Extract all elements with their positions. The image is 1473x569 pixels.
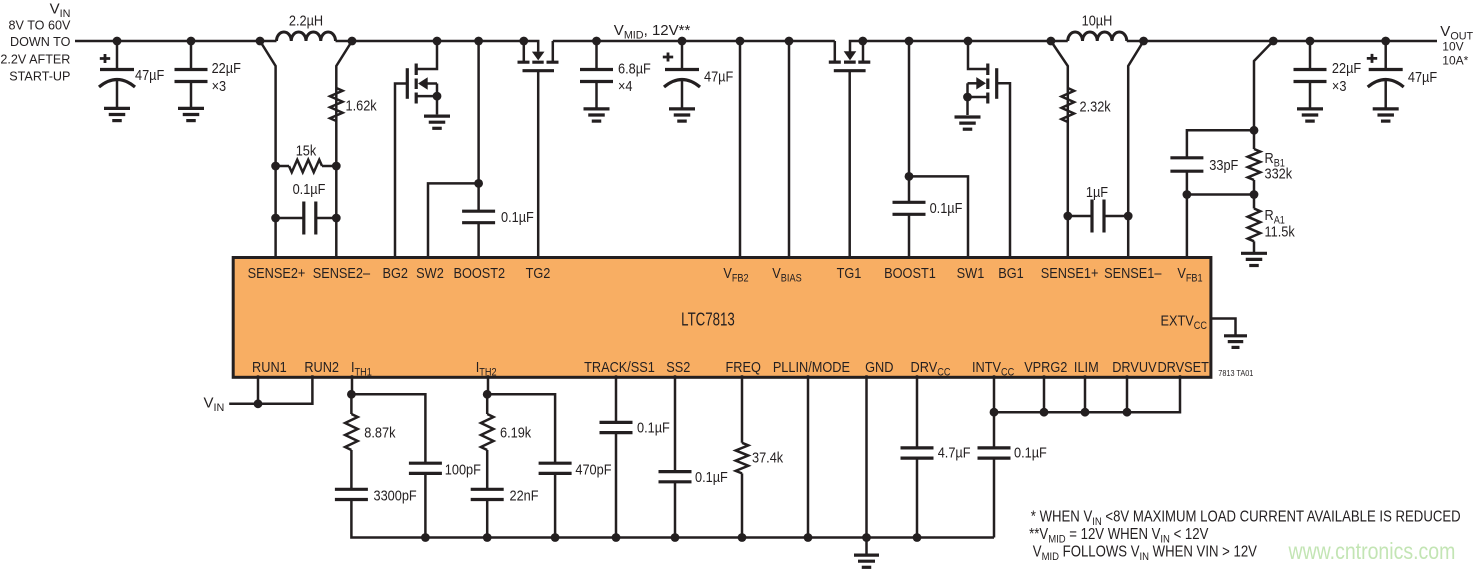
svg-text:BOOST2: BOOST2 xyxy=(453,264,505,281)
capacitor 6.8µF ×4 xyxy=(595,41,598,70)
wire EXTVCC to ground xyxy=(1211,319,1236,335)
capacitor 0.1µF track/ss1 xyxy=(600,421,633,424)
junction dot 470pF at rail xyxy=(551,533,560,542)
junction dot 1µF right xyxy=(1124,212,1133,221)
ground BG1 source xyxy=(955,115,981,118)
svg-text:ILIM: ILIM xyxy=(1074,358,1099,375)
svg-text:DRVSET: DRVSET xyxy=(1157,358,1209,375)
junction dot 1µF left xyxy=(1063,212,1072,221)
wire VOUT rail xyxy=(1144,40,1437,43)
wire SW1 pin elbow xyxy=(909,176,968,259)
junction dot TG2 source at rail xyxy=(519,37,528,46)
wire FREQ pin down xyxy=(741,375,744,443)
junction dot DRVCC at rail xyxy=(913,533,922,542)
resistor RA1 11.5k xyxy=(1248,209,1261,242)
svg-text:0.1µF: 0.1µF xyxy=(293,180,326,197)
wire PLLIN/MODE pin to bottom rail xyxy=(807,375,810,537)
svg-text:TG2: TG2 xyxy=(526,264,551,281)
ground input 22µF xyxy=(178,107,204,110)
junction dot inductor 2.2µH left xyxy=(256,37,265,46)
wire SW2 pin to boost junction xyxy=(428,183,479,259)
junction dot 0.1µF sense2 left xyxy=(271,214,280,223)
transistor M4 bottom NMOS (BG1) xyxy=(986,64,989,104)
junction dot input 22µF xyxy=(187,37,196,46)
wire SW2 switch-node rail xyxy=(352,40,524,43)
junction dot PLLIN at rail xyxy=(804,533,813,542)
capacitor 33pF feedback xyxy=(1170,156,1203,159)
wire SENSE1+ sense line xyxy=(1051,41,1068,260)
svg-text:100pF: 100pF xyxy=(445,460,481,477)
wire ss2 cap to bottom rail xyxy=(674,482,677,538)
junction dot ITH2 xyxy=(483,390,492,399)
svg-text:BOOST1: BOOST1 xyxy=(884,264,936,281)
capacitor 22nF xyxy=(471,488,504,491)
junction dot BOOST1 rail xyxy=(905,37,914,46)
svg-text:SENSE2+: SENSE2+ xyxy=(248,264,306,281)
junction dot 100pF at rail xyxy=(421,533,430,542)
resistor 6.19k xyxy=(481,414,494,450)
capacitor 470pF xyxy=(539,462,572,465)
junction dot output 47µF xyxy=(1381,37,1390,46)
inductor 2.2µH xyxy=(260,40,277,43)
junction dot SW2/BOOST2 xyxy=(474,179,483,188)
capacitor 1µF sense1 filter xyxy=(1068,215,1092,218)
junction dot FREQ at rail xyxy=(738,533,747,542)
resistor 37.4k xyxy=(736,443,749,474)
wire VBIAS pin to VMID rail xyxy=(788,41,791,260)
junction dot VMID 47µF xyxy=(678,37,687,46)
svg-text:22nF: 22nF xyxy=(509,486,538,503)
svg-text:2.2µH: 2.2µH xyxy=(289,11,323,28)
junction dot INTVCC bus xyxy=(990,408,999,417)
wire VFB2 pin to VMID rail xyxy=(739,41,742,260)
wire 37.4k to bottom rail xyxy=(741,473,744,537)
capacitor 0.1µF sense2 filter xyxy=(276,217,304,220)
wire DRVCC pin down xyxy=(916,375,919,448)
svg-text:22µF: 22µF xyxy=(1332,59,1361,76)
svg-text:LTC7813: LTC7813 xyxy=(681,311,735,330)
resistor 2.32k xyxy=(1062,88,1075,122)
svg-text:SENSE2–: SENSE2– xyxy=(313,264,371,281)
ground RA1 xyxy=(1241,252,1267,255)
svg-text:8V TO 60V: 8V TO 60V xyxy=(9,18,71,32)
svg-text:DRVUV: DRVUV xyxy=(1112,358,1157,375)
wire SW1 switch-node rail xyxy=(863,40,1051,43)
wire ITH1 elbow to 100pF xyxy=(351,394,425,463)
svg-text:37.4k: 37.4k xyxy=(752,448,783,465)
wire 8.87k to 3300pF xyxy=(350,450,353,489)
capacitor 47µF input electrolytic xyxy=(116,41,119,70)
svg-text:SENSE1–: SENSE1– xyxy=(1104,264,1162,281)
wire VIN input rail xyxy=(75,40,260,43)
svg-text:DOWN TO: DOWN TO xyxy=(10,35,71,49)
junction dot TG1 source at rail xyxy=(858,37,867,46)
svg-text:VPRG2: VPRG2 xyxy=(1024,358,1067,375)
ground EXTVCC xyxy=(1224,334,1247,337)
wire 6.19k to 22nF xyxy=(486,450,489,489)
junction dot VPRG2 bus xyxy=(1040,408,1049,417)
junction dot BG1 drain at rail xyxy=(964,37,973,46)
svg-text:BG2: BG2 xyxy=(382,264,408,281)
wire RUN1/RUN2 to VIN xyxy=(229,375,312,404)
wire SENSE2+ sense line xyxy=(260,41,276,260)
wire VOUT feedback tap xyxy=(1254,41,1273,149)
svg-text:10µH: 10µH xyxy=(1082,11,1113,28)
svg-text:SS2: SS2 xyxy=(666,358,690,375)
capacitor 0.1µF boost1 xyxy=(893,201,926,204)
junction dot VFB1 at 33pF bottom xyxy=(1183,190,1192,199)
svg-text:1µF: 1µF xyxy=(1086,183,1108,200)
wire BOOST2 vertical from rail xyxy=(477,41,480,211)
svg-text:33pF: 33pF xyxy=(1209,156,1238,173)
junction dot ITH2 at rail xyxy=(483,533,492,542)
svg-text:BG1: BG1 xyxy=(998,264,1024,281)
svg-text:FREQ: FREQ xyxy=(726,358,762,375)
resistor 8.87k xyxy=(345,414,358,450)
junction dot BG2 source/body xyxy=(433,92,442,101)
junction dot RB1/RA1 xyxy=(1250,190,1259,199)
wire ITH2 elbow to 470pF xyxy=(487,394,555,463)
junction dot GND at rail xyxy=(862,533,871,542)
wire 3300pF to bottom rail xyxy=(351,500,994,538)
svg-text:6.19k: 6.19k xyxy=(500,423,531,440)
svg-text:TG1: TG1 xyxy=(837,264,862,281)
wire SENSE1- sense line xyxy=(1128,41,1143,260)
svg-text:START-UP: START-UP xyxy=(9,70,70,84)
svg-text:3300pF: 3300pF xyxy=(373,486,416,503)
capacitor 47µF VMID electrolytic xyxy=(681,41,684,70)
svg-text:PLLIN/MODE: PLLIN/MODE xyxy=(773,358,850,375)
ground 6.8µF xyxy=(584,107,610,110)
junction dot BOOST2 rail xyxy=(474,37,483,46)
svg-text:47µF: 47µF xyxy=(1408,68,1437,85)
junction dot VBIAS xyxy=(785,37,794,46)
svg-text:0.1µF: 0.1µF xyxy=(1014,443,1047,460)
junction dot BOOST1/SW1 xyxy=(905,172,914,181)
svg-text:6.8µF: 6.8µF xyxy=(618,59,651,76)
wire 22nF to bottom rail xyxy=(486,500,489,538)
wire drvcc cap to bottom rail xyxy=(916,458,919,537)
junction dot 15k left xyxy=(271,162,280,171)
svg-text:470pF: 470pF xyxy=(575,460,611,477)
junction dot 15k right xyxy=(332,162,341,171)
transistor M2 bottom NMOS (BG2) xyxy=(415,64,418,104)
ground BG2 source xyxy=(424,114,450,117)
resistor RB1 332k xyxy=(1248,149,1261,180)
svg-text:47µF: 47µF xyxy=(135,66,164,83)
wire BOOST1 vertical from rail xyxy=(908,41,911,202)
svg-text:SW2: SW2 xyxy=(416,264,444,281)
wire VMID rail xyxy=(553,40,835,43)
svg-text:11.5k: 11.5k xyxy=(1265,222,1295,239)
wire INTVCC bus to DRVSET xyxy=(994,375,1180,412)
wire INTVCC pin down xyxy=(993,375,996,448)
svg-text:1.62k: 1.62k xyxy=(345,96,376,113)
wire ITH1 pin down xyxy=(350,375,353,414)
capacitor 0.1µF intvcc xyxy=(978,446,1011,449)
svg-text:7813 TA01: 7813 TA01 xyxy=(1218,368,1254,378)
junction dot output 22µF xyxy=(1306,37,1315,46)
svg-text:10V: 10V xyxy=(1442,39,1463,53)
capacitor 22µF ×3 output xyxy=(1309,41,1312,70)
capacitor 3300pF xyxy=(335,488,368,491)
svg-text:22µF: 22µF xyxy=(212,59,241,76)
junction dot SS2 at rail xyxy=(671,533,680,542)
junction dot inductor 2.2µH right xyxy=(348,37,357,46)
capacitor 100pF xyxy=(409,462,442,465)
svg-text:SENSE1+: SENSE1+ xyxy=(1041,264,1099,281)
wire 470pF to bottom rail xyxy=(554,473,557,537)
wire DRVUV pin to bus xyxy=(1126,375,1129,412)
ground GND pin xyxy=(854,553,879,556)
svg-text:RUN2: RUN2 xyxy=(304,358,339,375)
svg-text:47µF: 47µF xyxy=(704,67,733,84)
wire ILIM pin to bus xyxy=(1084,375,1087,412)
svg-text:2.32k: 2.32k xyxy=(1080,97,1111,114)
wire SENSE2- sense line xyxy=(336,41,352,260)
wire track cap to bottom rail xyxy=(615,433,618,538)
svg-text:4.7µF: 4.7µF xyxy=(938,443,971,460)
wire SS2 pin down xyxy=(674,375,677,471)
wire RA1 to ground xyxy=(1253,241,1256,252)
wire TG2 gate to pin xyxy=(537,71,540,260)
wire BG1 gate to pin xyxy=(997,83,1010,259)
junction dot 6.8µF xyxy=(592,37,601,46)
junction dot inductor 10µH right xyxy=(1139,37,1148,46)
junction dot RB1 top xyxy=(1250,126,1259,135)
ground input 47µF xyxy=(104,107,130,110)
junction dot VFB2 xyxy=(736,37,745,46)
junction dot input 47µF xyxy=(113,37,122,46)
wire BG2 gate to pin xyxy=(395,84,407,260)
svg-text:×3: ×3 xyxy=(212,77,227,94)
resistor 15k xyxy=(276,165,289,168)
svg-text:RUN1: RUN1 xyxy=(252,358,287,375)
svg-text:SW1: SW1 xyxy=(957,264,985,281)
wire RB1 top to VFB1 line xyxy=(1187,130,1254,158)
wire intvcc cap to bottom rail xyxy=(993,458,996,537)
svg-text:×3: ×3 xyxy=(1332,77,1347,94)
svg-text:15k: 15k xyxy=(296,141,317,158)
svg-text:0.1µF: 0.1µF xyxy=(930,199,963,216)
svg-text:GND: GND xyxy=(865,358,893,375)
wire 100pF to bottom rail xyxy=(424,473,427,537)
svg-text:10A*: 10A* xyxy=(1442,54,1468,68)
inductor 10µH xyxy=(1051,40,1068,43)
transistor M3 top NMOS (TG1) xyxy=(829,60,871,63)
svg-text:332k: 332k xyxy=(1265,164,1293,181)
svg-text:8.87k: 8.87k xyxy=(364,423,395,440)
junction dot ITH1 xyxy=(347,390,356,399)
junction dot ILIM bus xyxy=(1081,408,1090,417)
svg-text:www.cntronics.com: www.cntronics.com xyxy=(1288,538,1456,564)
capacitor 0.1µF ss2 xyxy=(659,470,692,473)
svg-text:0.1µF: 0.1µF xyxy=(501,208,534,225)
wire TRACK/SS1 pin down xyxy=(615,375,618,422)
junction dot BG1 source/body xyxy=(963,93,972,102)
op-amp U1 LTC7813 controller IC body xyxy=(233,258,1211,378)
svg-text:×4: ×4 xyxy=(618,77,633,94)
wire RB1 bottom junction row xyxy=(1253,180,1256,209)
wire VPRG2 pin to bus xyxy=(1043,375,1046,412)
wire TG1 gate to pin xyxy=(848,71,851,260)
wire ITH2 pin down xyxy=(486,375,489,414)
junction dot DRVUV bus xyxy=(1123,408,1132,417)
junction dot RUN1 xyxy=(254,399,263,408)
svg-text:2.2V AFTER: 2.2V AFTER xyxy=(0,52,70,66)
ground output 22µF xyxy=(1297,107,1323,110)
junction dot inductor 10µH left xyxy=(1047,37,1056,46)
capacitor 4.7µF drvcc xyxy=(901,446,934,449)
transistor M1 top NMOS (TG2) xyxy=(518,61,559,64)
junction dot BG2 drain at rail xyxy=(433,37,442,46)
capacitor 47µF output electrolytic xyxy=(1384,41,1387,70)
ground VMID 47µF xyxy=(669,107,695,110)
svg-text:0.1µF: 0.1µF xyxy=(637,418,670,435)
ground output 47µF xyxy=(1373,107,1399,110)
junction dot feedback tap at rail xyxy=(1269,37,1278,46)
svg-text:0.1µF: 0.1µF xyxy=(695,468,728,485)
resistor 1.62k xyxy=(330,88,343,121)
junction dot TRACK at rail xyxy=(612,533,621,542)
capacitor 22µF ×3 input xyxy=(190,41,193,70)
wire GND pin to bottom rail xyxy=(865,375,868,554)
capacitor 0.1µF boost2 xyxy=(462,210,495,213)
junction dot 0.1µF sense2 right xyxy=(332,214,341,223)
svg-text:TRACK/SS1: TRACK/SS1 xyxy=(584,358,655,375)
